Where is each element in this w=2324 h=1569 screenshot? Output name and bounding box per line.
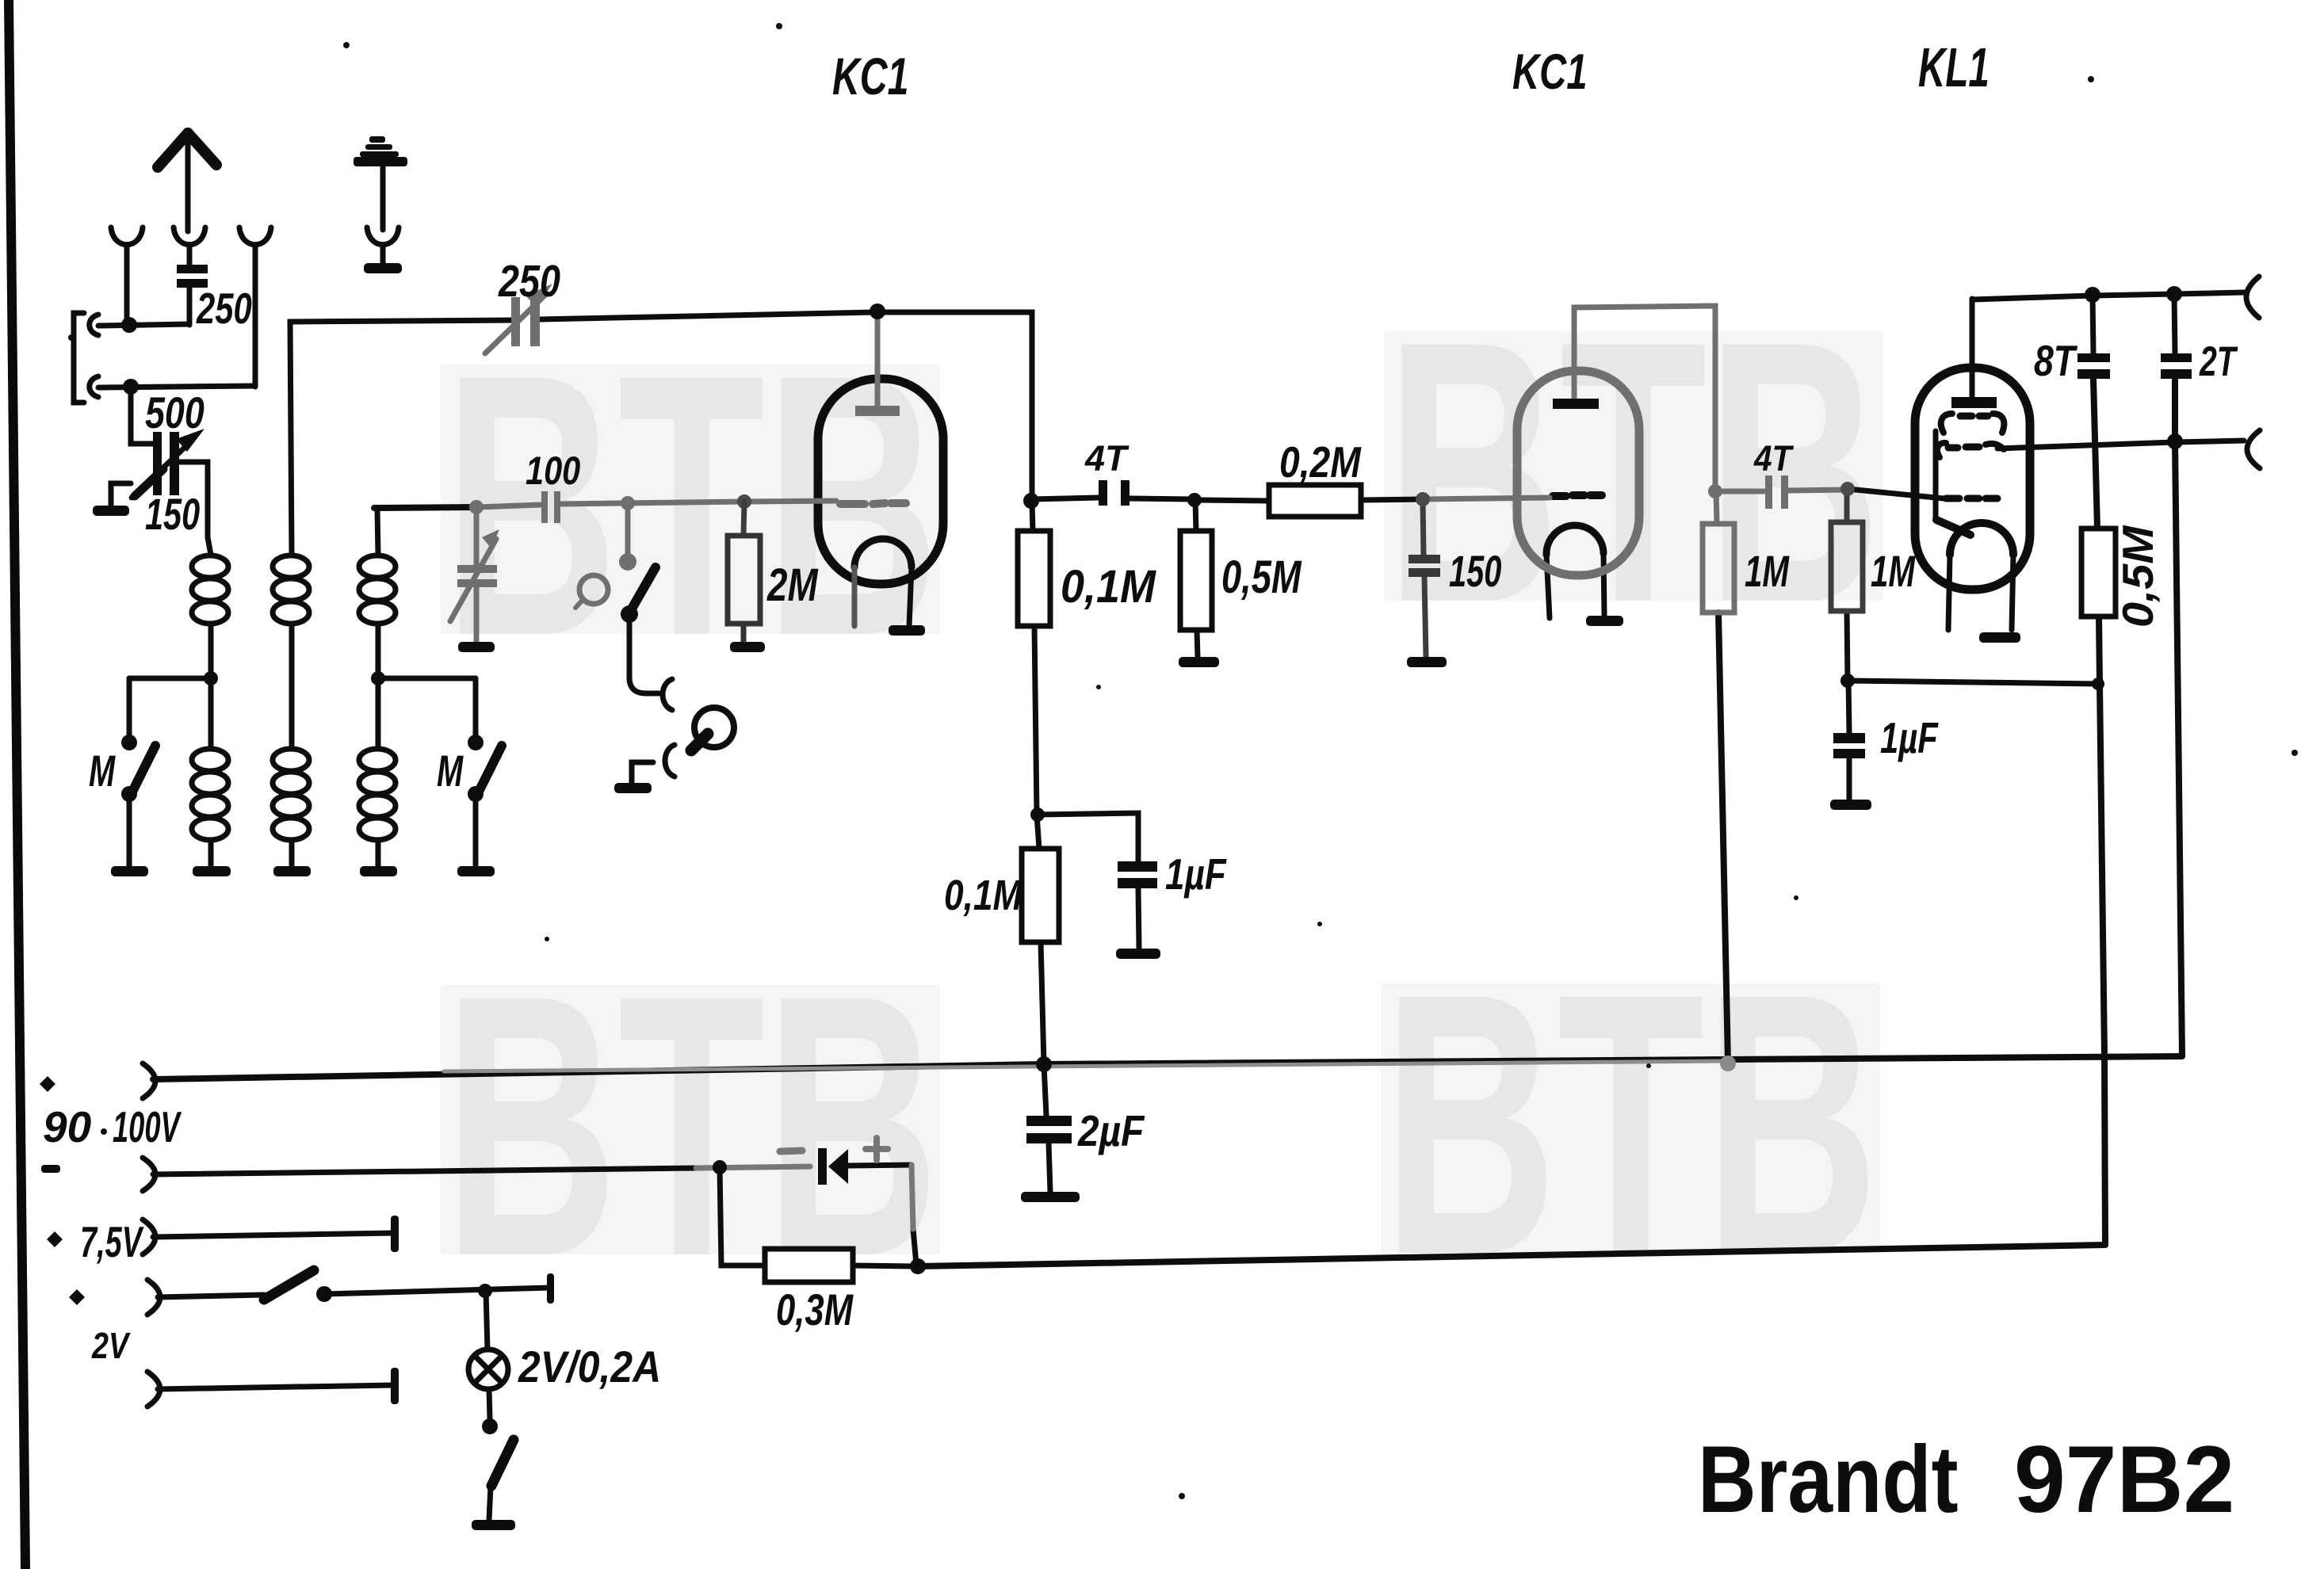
svg-text:1M: 1M [1871, 548, 1916, 597]
svg-text:KL1: KL1 [1918, 36, 1990, 98]
svg-text:2V: 2V [91, 1325, 131, 1365]
svg-text:0,1M: 0,1M [944, 872, 1022, 919]
svg-text:0,2M: 0,2M [1279, 437, 1362, 487]
svg-text:1µF: 1µF [1165, 849, 1227, 899]
svg-text:100: 100 [526, 448, 581, 493]
svg-text:8T: 8T [2034, 337, 2078, 386]
svg-text:0,1M: 0,1M [1061, 560, 1156, 612]
svg-text:150: 150 [145, 490, 200, 540]
svg-text:1µF: 1µF [1880, 715, 1939, 763]
svg-text:100V: 100V [113, 1102, 182, 1151]
svg-text:97B2: 97B2 [2014, 1426, 2234, 1533]
svg-text:KC1: KC1 [1512, 44, 1588, 99]
svg-text:250: 250 [196, 285, 252, 334]
svg-text:1M: 1M [1745, 548, 1790, 597]
svg-text:0,3M: 0,3M [776, 1285, 854, 1334]
svg-text:M: M [437, 746, 464, 796]
svg-text:150: 150 [1449, 547, 1501, 596]
svg-text:2T: 2T [2199, 338, 2238, 384]
svg-text:0,5M: 0,5M [2113, 525, 2162, 628]
svg-text:2V/0,2A: 2V/0,2A [518, 1342, 661, 1391]
svg-text:4T: 4T [1753, 439, 1795, 479]
svg-text:BTB: BTB [1386, 264, 1881, 680]
svg-text:2M: 2M [766, 560, 819, 611]
svg-text:7,5V: 7,5V [80, 1218, 144, 1267]
svg-text:Brandt: Brandt [1698, 1426, 1959, 1533]
svg-text:BTB: BTB [444, 918, 939, 1334]
svg-text:0,5M: 0,5M [1221, 552, 1302, 604]
svg-text:90: 90 [43, 1102, 92, 1151]
svg-text:KC1: KC1 [832, 48, 908, 106]
svg-text:2µF: 2µF [1077, 1106, 1145, 1155]
svg-text:250: 250 [498, 257, 560, 307]
svg-text:4T: 4T [1084, 438, 1130, 479]
svg-text:BTB: BTB [1383, 916, 1879, 1332]
svg-text:500: 500 [145, 387, 204, 437]
svg-text:M: M [89, 746, 116, 796]
